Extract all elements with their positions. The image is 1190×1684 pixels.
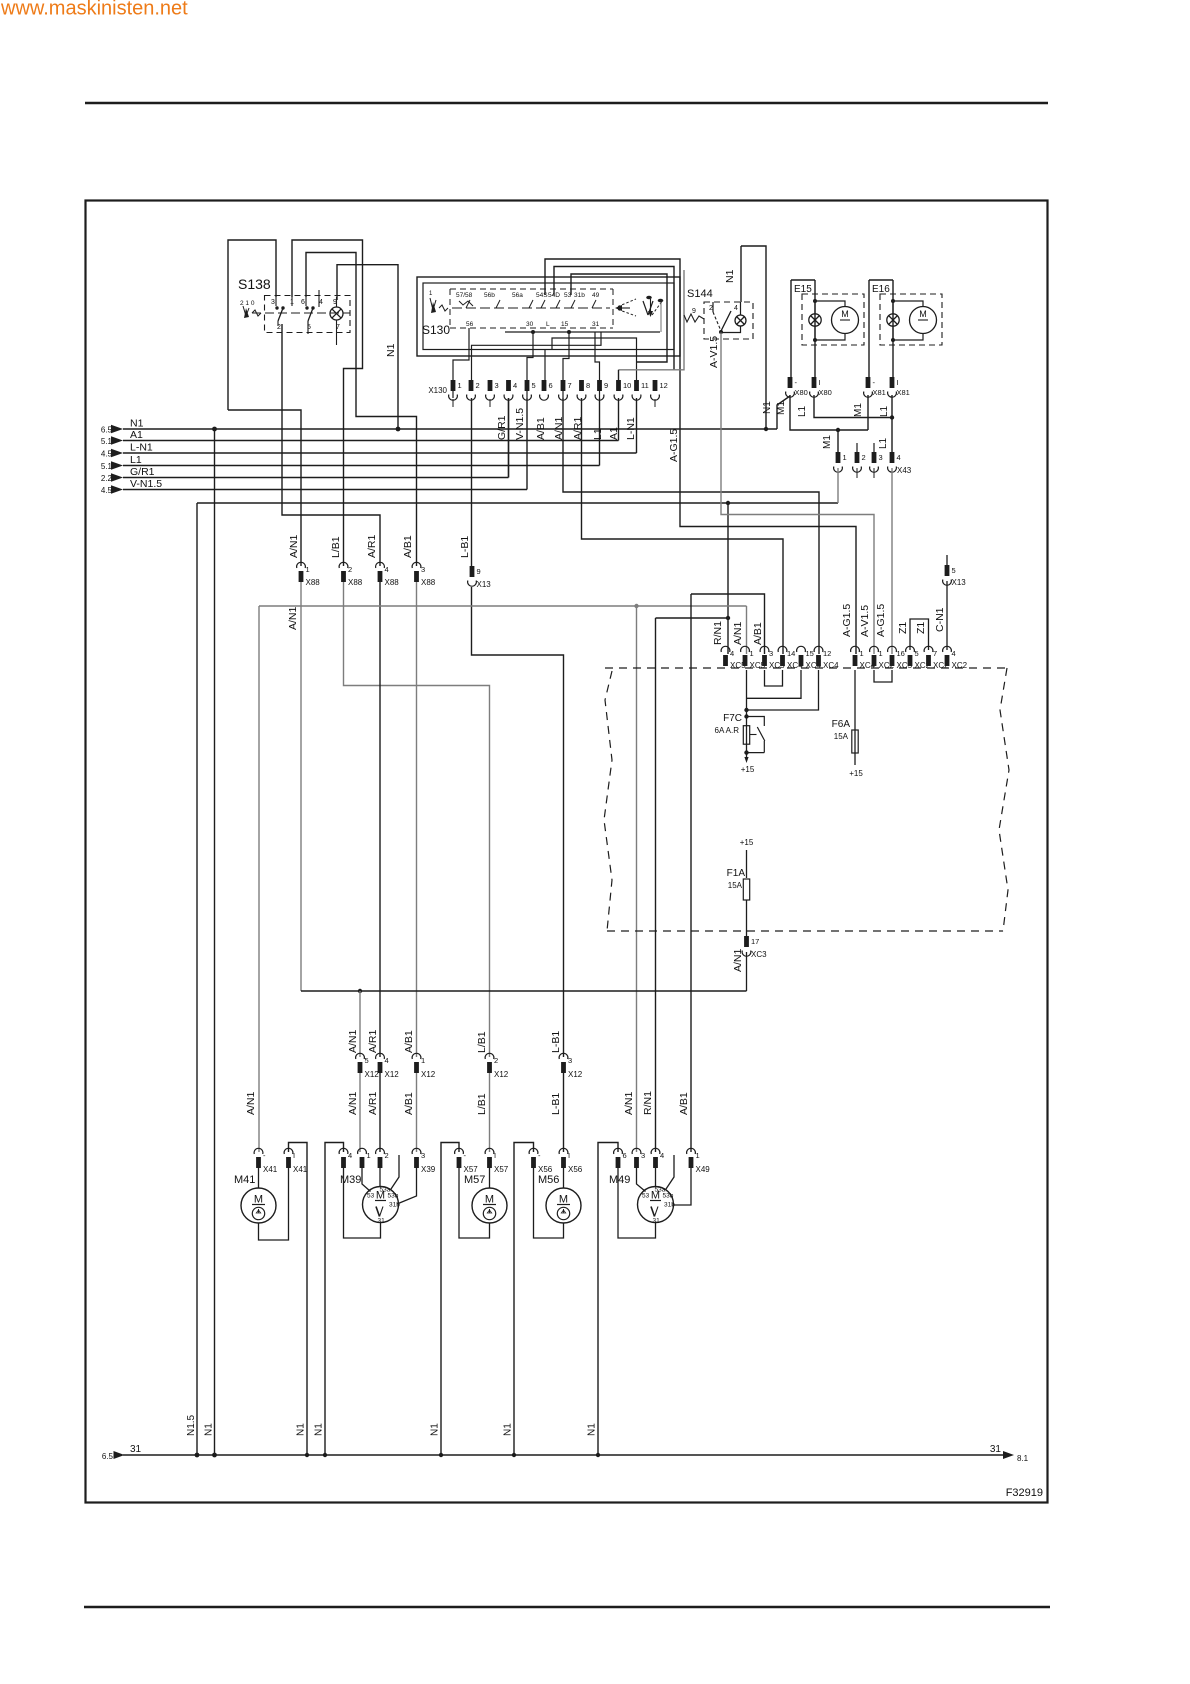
svg-text:1: 1 xyxy=(458,381,462,390)
svg-text:L-N1: L-N1 xyxy=(130,442,153,454)
svg-text:S130: S130 xyxy=(422,323,450,337)
svg-text:6: 6 xyxy=(549,381,553,390)
svg-text:4: 4 xyxy=(897,453,901,462)
svg-text:C-N1: C-N1 xyxy=(934,607,946,632)
svg-text:10: 10 xyxy=(623,381,631,390)
svg-text:M: M xyxy=(254,1194,263,1206)
svg-text:2: 2 xyxy=(476,381,480,390)
svg-text:X81: X81 xyxy=(897,388,910,397)
svg-text:A/B1: A/B1 xyxy=(402,535,414,558)
svg-text:L1: L1 xyxy=(130,454,142,466)
svg-text:4: 4 xyxy=(385,1056,389,1065)
svg-text:5: 5 xyxy=(532,381,536,390)
svg-text:31b: 31b xyxy=(389,1202,400,1209)
svg-text:1: 1 xyxy=(843,453,847,462)
svg-text:X39: X39 xyxy=(421,1165,436,1174)
svg-text:Z1: Z1 xyxy=(897,622,909,634)
svg-text:L-B1: L-B1 xyxy=(550,1093,562,1115)
svg-text:+15: +15 xyxy=(741,765,755,774)
svg-text:31: 31 xyxy=(378,1218,386,1225)
svg-text:A/B1: A/B1 xyxy=(403,1092,415,1115)
svg-text:15A: 15A xyxy=(728,881,743,890)
svg-text:N1: N1 xyxy=(296,1423,307,1436)
svg-text:X49: X49 xyxy=(696,1165,711,1174)
svg-text:2 1 0: 2 1 0 xyxy=(240,300,255,307)
svg-text:4: 4 xyxy=(319,299,323,306)
svg-text:56a: 56a xyxy=(512,292,523,299)
svg-text:X12: X12 xyxy=(568,1070,583,1079)
svg-text:1: 1 xyxy=(367,1151,371,1160)
svg-text:A/N1: A/N1 xyxy=(347,1091,359,1115)
svg-text:L-B1: L-B1 xyxy=(550,1031,562,1053)
svg-text:5.1: 5.1 xyxy=(101,462,113,471)
svg-text:M1: M1 xyxy=(853,403,864,417)
svg-text:6.5: 6.5 xyxy=(102,1452,114,1461)
svg-text:+15: +15 xyxy=(849,769,863,778)
svg-text:X80: X80 xyxy=(819,388,832,397)
svg-text:A/N1: A/N1 xyxy=(288,534,300,558)
svg-text:53b: 53b xyxy=(388,1193,399,1200)
svg-text:A/B1: A/B1 xyxy=(678,1092,690,1115)
svg-text:16: 16 xyxy=(897,649,905,658)
svg-text:X130: X130 xyxy=(428,386,447,395)
svg-text:56: 56 xyxy=(466,321,474,328)
svg-text:2: 2 xyxy=(348,565,352,574)
svg-text:X12: X12 xyxy=(365,1070,380,1079)
svg-text:A/N1: A/N1 xyxy=(732,948,744,972)
svg-text:A/R1: A/R1 xyxy=(367,1029,379,1053)
svg-text:7: 7 xyxy=(568,381,572,390)
svg-text:12: 12 xyxy=(823,649,831,658)
svg-text:XC2: XC2 xyxy=(952,661,968,670)
svg-text:www.maskinisten.net: www.maskinisten.net xyxy=(0,0,188,20)
svg-text:A/N1: A/N1 xyxy=(347,1029,359,1053)
svg-text:31b: 31b xyxy=(574,292,585,299)
svg-text:3: 3 xyxy=(421,1151,425,1160)
svg-text:4: 4 xyxy=(660,1151,664,1160)
svg-text:54S: 54S xyxy=(536,292,548,299)
svg-text:4: 4 xyxy=(734,305,738,312)
svg-text:49: 49 xyxy=(592,292,600,299)
svg-text:4.5: 4.5 xyxy=(101,450,113,459)
svg-text:F6A: F6A xyxy=(832,719,851,730)
svg-text:1: 1 xyxy=(696,1151,700,1160)
svg-text:N1: N1 xyxy=(385,343,397,357)
svg-text:X56: X56 xyxy=(538,1165,553,1174)
svg-text:E15: E15 xyxy=(794,284,812,295)
svg-text:31: 31 xyxy=(130,1444,142,1455)
svg-text:53: 53 xyxy=(367,1193,375,1200)
svg-text:N1: N1 xyxy=(204,1423,215,1436)
svg-text:5.1: 5.1 xyxy=(101,437,113,446)
svg-text:A1: A1 xyxy=(130,429,143,441)
svg-text:L-B1: L-B1 xyxy=(459,536,471,558)
svg-text:15A: 15A xyxy=(834,732,849,741)
svg-text:Z1: Z1 xyxy=(915,622,927,634)
svg-text:M1: M1 xyxy=(822,435,833,449)
svg-text:2: 2 xyxy=(385,1151,389,1160)
svg-text:X57: X57 xyxy=(494,1165,509,1174)
svg-text:9: 9 xyxy=(477,567,481,576)
svg-text:X56: X56 xyxy=(568,1165,583,1174)
svg-text:4: 4 xyxy=(348,1151,352,1160)
svg-text:A/B1: A/B1 xyxy=(403,1030,415,1053)
svg-text:M56: M56 xyxy=(538,1174,559,1186)
svg-text:S144: S144 xyxy=(687,288,713,300)
svg-text:4: 4 xyxy=(385,565,389,574)
svg-text:56b: 56b xyxy=(484,292,495,299)
svg-text:M: M xyxy=(841,309,849,319)
svg-text:G/R1: G/R1 xyxy=(130,466,155,478)
svg-text:31: 31 xyxy=(990,1444,1002,1455)
svg-text:A/R1: A/R1 xyxy=(366,534,378,558)
svg-text:A-G1.5: A-G1.5 xyxy=(841,604,853,637)
svg-text:N1: N1 xyxy=(430,1423,441,1436)
svg-text:1: 1 xyxy=(750,649,754,658)
svg-text:6: 6 xyxy=(301,299,305,306)
svg-text:L1: L1 xyxy=(879,405,890,417)
svg-text:R/N1: R/N1 xyxy=(642,1091,654,1115)
svg-text:L1: L1 xyxy=(878,437,889,449)
svg-text:X81: X81 xyxy=(873,388,886,397)
svg-text:A/N1: A/N1 xyxy=(732,621,744,645)
svg-text:X41: X41 xyxy=(263,1165,278,1174)
svg-text:L1: L1 xyxy=(592,428,604,440)
svg-text:5: 5 xyxy=(915,649,919,658)
svg-text:X43: X43 xyxy=(897,466,912,475)
svg-text:L/B1: L/B1 xyxy=(330,536,342,558)
svg-text:X88: X88 xyxy=(348,578,363,587)
svg-text:A/B1: A/B1 xyxy=(752,622,764,645)
svg-text:I: I xyxy=(293,1151,295,1160)
svg-text:A/N1: A/N1 xyxy=(623,1091,635,1115)
svg-text:X88: X88 xyxy=(421,578,436,587)
svg-text:7: 7 xyxy=(933,649,937,658)
svg-text:3: 3 xyxy=(271,299,275,306)
svg-text:15: 15 xyxy=(806,649,814,658)
svg-text:15: 15 xyxy=(561,321,569,328)
svg-text:14: 14 xyxy=(787,649,795,658)
svg-text:I: I xyxy=(819,378,821,387)
svg-text:M: M xyxy=(919,309,927,319)
svg-text:A/N1: A/N1 xyxy=(287,606,299,630)
svg-text:A/R1: A/R1 xyxy=(367,1091,379,1115)
svg-text:M1: M1 xyxy=(776,401,787,415)
svg-text:I: I xyxy=(897,378,899,387)
svg-text:9: 9 xyxy=(692,308,696,315)
svg-text:31: 31 xyxy=(653,1218,661,1225)
svg-text:X12: X12 xyxy=(494,1070,509,1079)
svg-text:9: 9 xyxy=(604,381,608,390)
svg-text:53: 53 xyxy=(642,1193,650,1200)
svg-text:1: 1 xyxy=(306,565,310,574)
svg-text:A/B1: A/B1 xyxy=(535,417,547,440)
svg-text:1: 1 xyxy=(421,1056,425,1065)
svg-text:I: I xyxy=(494,1151,496,1160)
svg-text:4: 4 xyxy=(730,649,734,658)
svg-text:F32919: F32919 xyxy=(1006,1487,1043,1499)
svg-text:17: 17 xyxy=(751,937,759,946)
svg-text:2: 2 xyxy=(862,453,866,462)
svg-text:6.5: 6.5 xyxy=(101,426,113,435)
svg-text:M: M xyxy=(559,1194,568,1206)
svg-text:X12: X12 xyxy=(385,1070,400,1079)
svg-text:E16: E16 xyxy=(872,284,890,295)
svg-text:S138: S138 xyxy=(238,276,271,292)
svg-text:30: 30 xyxy=(526,321,534,328)
svg-text:3: 3 xyxy=(495,381,499,390)
svg-text:4: 4 xyxy=(513,381,517,390)
svg-text:4.5: 4.5 xyxy=(101,486,113,495)
svg-text:G/R1: G/R1 xyxy=(496,415,508,440)
svg-text:2: 2 xyxy=(494,1056,498,1065)
svg-text:L: L xyxy=(546,321,550,328)
svg-text:+15: +15 xyxy=(740,838,754,847)
svg-text:M41: M41 xyxy=(234,1174,255,1186)
svg-text:N1.5: N1.5 xyxy=(186,1414,197,1436)
svg-text:M: M xyxy=(485,1194,494,1206)
svg-text:X13: X13 xyxy=(952,578,967,587)
svg-text:X57: X57 xyxy=(464,1165,479,1174)
svg-text:A1: A1 xyxy=(608,427,620,440)
svg-text:A-V1.5: A-V1.5 xyxy=(708,336,720,368)
svg-text:12: 12 xyxy=(660,381,668,390)
svg-text:X80: X80 xyxy=(795,388,808,397)
svg-text:L-N1: L-N1 xyxy=(625,417,637,440)
svg-text:V-N1.5: V-N1.5 xyxy=(130,478,162,490)
svg-text:XC3: XC3 xyxy=(751,950,767,959)
svg-text:5: 5 xyxy=(365,1056,369,1065)
svg-text:L1: L1 xyxy=(797,405,808,417)
svg-text:L/B1: L/B1 xyxy=(476,1093,488,1115)
svg-text:X88: X88 xyxy=(306,578,321,587)
svg-text:1: 1 xyxy=(860,649,864,658)
svg-text:6A A.R: 6A A.R xyxy=(715,726,740,735)
svg-text:X88: X88 xyxy=(385,578,400,587)
svg-text:5: 5 xyxy=(952,566,956,575)
svg-text:1: 1 xyxy=(879,649,883,658)
svg-text:3: 3 xyxy=(641,1151,645,1160)
svg-text:A/N1: A/N1 xyxy=(245,1091,257,1115)
svg-text:3: 3 xyxy=(421,565,425,574)
svg-text:57/58: 57/58 xyxy=(456,292,473,299)
svg-text:R/N1: R/N1 xyxy=(712,621,724,645)
svg-text:F1A: F1A xyxy=(727,868,746,879)
svg-text:M49: M49 xyxy=(609,1174,630,1186)
svg-text:A-V1.5: A-V1.5 xyxy=(859,605,871,637)
svg-text:N1: N1 xyxy=(587,1423,598,1436)
svg-text:31: 31 xyxy=(592,321,600,328)
svg-text:XC4: XC4 xyxy=(823,661,839,670)
svg-text:V-N1.5: V-N1.5 xyxy=(514,408,526,440)
svg-text:4: 4 xyxy=(952,649,956,658)
svg-text:X13: X13 xyxy=(477,580,492,589)
svg-text:3: 3 xyxy=(879,453,883,462)
svg-text:X12: X12 xyxy=(421,1070,436,1079)
svg-text:8.1: 8.1 xyxy=(1017,1454,1029,1463)
svg-text:L/B1: L/B1 xyxy=(476,1031,488,1053)
svg-text:53b: 53b xyxy=(663,1193,674,1200)
svg-text:3: 3 xyxy=(769,649,773,658)
svg-text:I: I xyxy=(568,1151,570,1160)
svg-text:N1: N1 xyxy=(762,401,773,414)
svg-text:N1: N1 xyxy=(314,1423,325,1436)
svg-text:X41: X41 xyxy=(293,1165,308,1174)
svg-text:11: 11 xyxy=(641,381,649,390)
svg-text:N1: N1 xyxy=(724,269,736,283)
svg-text:3: 3 xyxy=(568,1056,572,1065)
svg-text:A-G1.5: A-G1.5 xyxy=(875,604,887,637)
svg-text:2.2: 2.2 xyxy=(101,474,113,483)
svg-text:8: 8 xyxy=(586,381,590,390)
svg-text:M57: M57 xyxy=(464,1174,485,1186)
svg-text:6: 6 xyxy=(623,1151,627,1160)
svg-text:N1: N1 xyxy=(503,1423,514,1436)
svg-text:N1: N1 xyxy=(130,418,144,430)
svg-text:A-G1.5: A-G1.5 xyxy=(668,429,680,462)
svg-text:F7C: F7C xyxy=(723,713,742,724)
